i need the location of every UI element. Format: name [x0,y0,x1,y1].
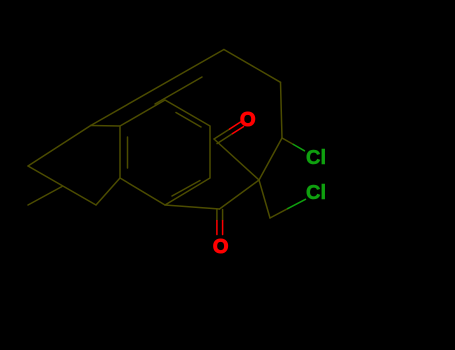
svg-text:Cl: Cl [306,182,326,204]
carbonyl C3=O2 double bond [217,210,223,235]
bond CH2a-C2 [259,138,282,180]
bond C1-C2 [214,139,259,180]
wire roof main [91,50,224,126]
aromatic dash bottom-right edge [172,181,200,197]
aromatic dash left edge [127,137,129,168]
wire left chain [28,126,91,167]
bond C3-ring [165,205,220,209]
wire ring-TL to chain [91,125,120,128]
wire roof parallel dash [155,77,202,104]
bond C2-CH2b [259,180,270,218]
svg-text:Cl: Cl [306,147,326,169]
svg-text:O: O [213,236,229,258]
bond C3-C2 [220,180,260,209]
bond CH2b-Cl2 [270,199,306,218]
wire bottom-left b [28,187,62,206]
wire bottom-left to ring [96,178,120,205]
carbonyl C1=O1 double bond [214,122,244,144]
benzene ring [120,100,210,205]
aromatic dash top-right edge [176,113,201,128]
wire roof right [224,50,281,83]
svg-text:O: O [240,109,256,131]
wire bottom-left a [28,166,96,205]
wire right vertical [281,82,283,138]
bond CH2a-Cl1 [282,138,305,151]
